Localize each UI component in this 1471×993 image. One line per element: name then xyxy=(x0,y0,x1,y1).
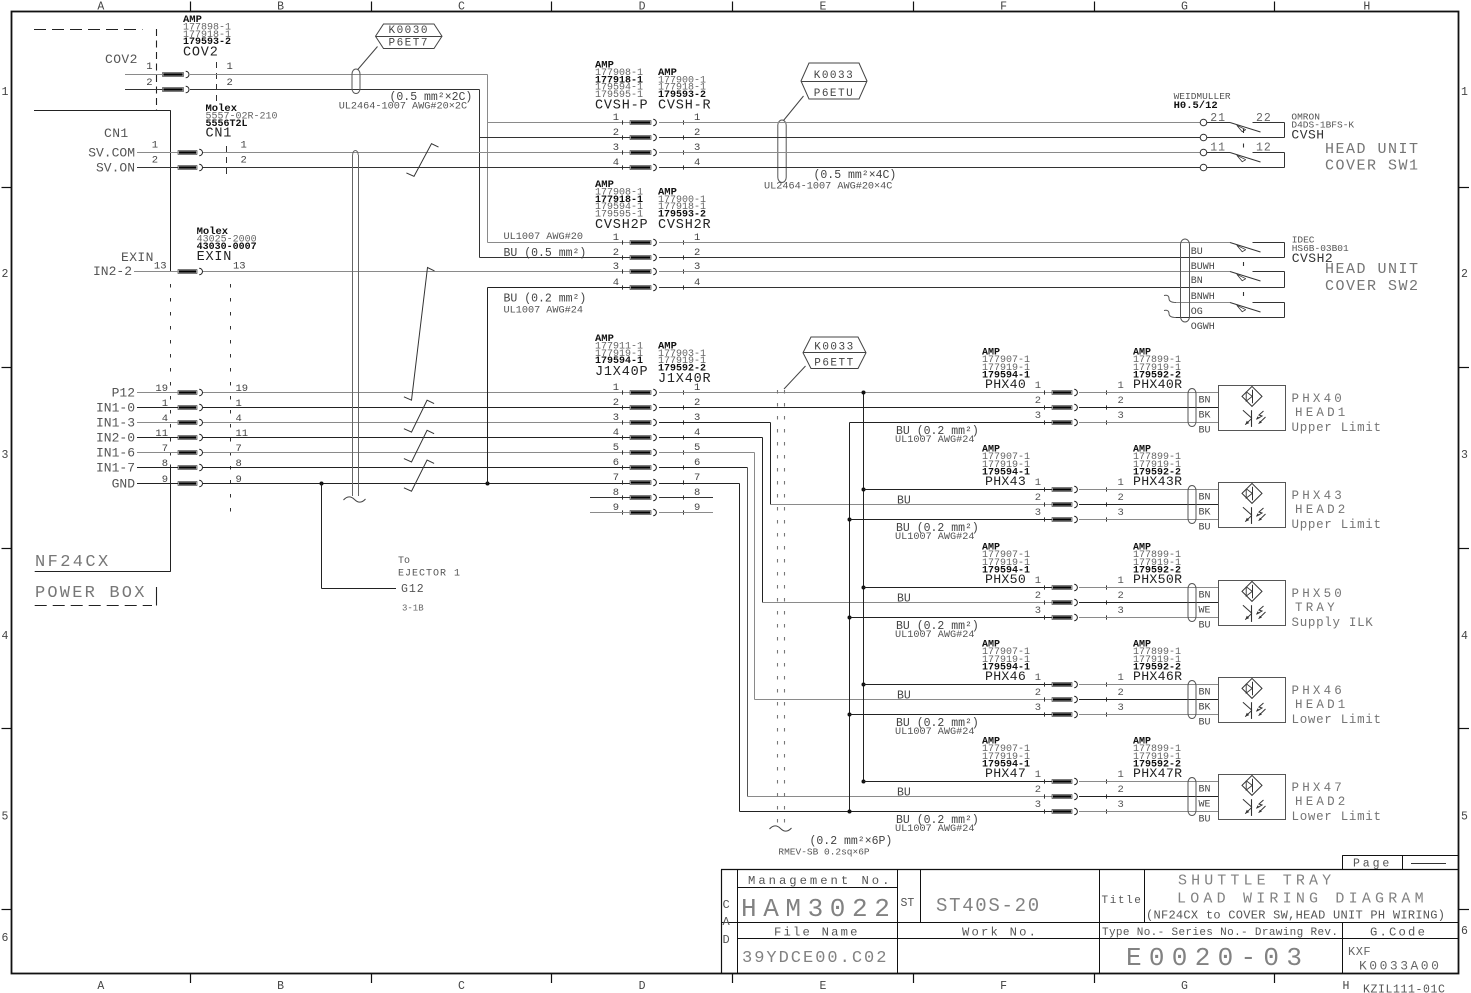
svg-text:CVSH-P: CVSH-P xyxy=(595,99,648,114)
svg-text:SHUTTLE TRAY: SHUTTLE TRAY xyxy=(1178,873,1335,890)
CVSH2 housing ticks xyxy=(622,240,624,244)
SW2 mechanical link dashes xyxy=(1243,262,1245,266)
PHX50 contacts xyxy=(1052,586,1072,590)
wire crossing slash rows 2-3 xyxy=(404,400,434,432)
CN1 pin 1 contact xyxy=(178,151,197,155)
svg-text:1: 1 xyxy=(2,86,9,99)
CVSH2 contacts xyxy=(630,241,651,245)
svg-text:BU: BU xyxy=(897,787,911,800)
svg-text:HEAD UNIT: HEAD UNIT xyxy=(1325,141,1420,158)
svg-text:2: 2 xyxy=(1035,590,1041,602)
svg-text:BU: BU xyxy=(897,690,911,703)
power box lead-in wires xyxy=(137,392,178,394)
sensor PHX47 LED diamond symbol xyxy=(1242,775,1262,795)
title block outline xyxy=(721,870,723,974)
svg-text:2: 2 xyxy=(1118,784,1124,796)
EXIN housing dashed columns xyxy=(170,284,172,461)
wire J1X40R pin1 to PHX40 pin1 (BN bus) xyxy=(659,392,1052,394)
svg-text:UL1007 AWG#24: UL1007 AWG#24 xyxy=(895,630,974,641)
BN bus junction dots xyxy=(862,391,866,395)
svg-text:PHX46R: PHX46R xyxy=(1133,669,1182,684)
svg-text:Title: Title xyxy=(1102,895,1143,907)
svg-text:2: 2 xyxy=(1035,687,1041,699)
svg-text:H: H xyxy=(1343,980,1350,993)
PHX50 cable marker oval xyxy=(1188,584,1196,622)
wire PHX43 pin1 from BN bus xyxy=(864,489,1053,491)
svg-text:BN: BN xyxy=(1191,276,1203,287)
svg-text:A: A xyxy=(723,915,731,929)
svg-text:Work No.: Work No. xyxy=(962,926,1038,940)
svg-text:3: 3 xyxy=(613,261,619,273)
svg-text:BNWH: BNWH xyxy=(1191,292,1215,303)
wire crossing slash rows 4-5 xyxy=(404,430,434,462)
svg-text:G: G xyxy=(1181,1,1188,14)
svg-text:BK: BK xyxy=(1199,411,1211,422)
sensor PHX43 phototransistor symbol xyxy=(1251,507,1253,524)
svg-text:UL1007 AWG#20: UL1007 AWG#20 xyxy=(504,232,583,243)
cable marker oval COV2 pair xyxy=(352,69,360,94)
svg-text:EJECTOR 1: EJECTOR 1 xyxy=(398,569,461,580)
CN1 box right edge upper xyxy=(170,110,172,271)
svg-text:A: A xyxy=(97,980,104,993)
svg-text:K0033: K0033 xyxy=(814,342,855,354)
svg-text:4: 4 xyxy=(613,427,619,439)
svg-text:1: 1 xyxy=(1461,86,1468,99)
svg-text:6: 6 xyxy=(2,932,9,945)
power box right edge lower xyxy=(170,465,172,572)
svg-text:K0033A00: K0033A00 xyxy=(1359,959,1441,974)
svg-text:UL2464-1007 AWG#20×4C: UL2464-1007 AWG#20×4C xyxy=(764,182,892,193)
svg-text:1: 1 xyxy=(241,140,247,152)
PHX43 cable marker oval xyxy=(1188,486,1196,524)
PHX40 contacts xyxy=(1052,391,1072,395)
svg-text:5: 5 xyxy=(2,811,9,824)
power box dashed corner tick xyxy=(156,587,158,606)
svg-text:3: 3 xyxy=(2,449,9,462)
wires CVSH-R to SW1 terminals xyxy=(659,122,1200,124)
wire CVSH2P pin4 feed xyxy=(488,287,631,289)
svg-text:1: 1 xyxy=(1118,672,1124,684)
PHX46 housing ticks xyxy=(1044,682,1046,686)
svg-text:Type No.- Series No.- Drawing: Type No.- Series No.- Drawing Rev. xyxy=(1102,927,1338,939)
CN1 lead-in wires xyxy=(137,152,178,154)
wire IN2-2 to CVSH2P pin3 xyxy=(203,271,630,273)
svg-text:J1X40P: J1X40P xyxy=(595,365,648,380)
svg-text:F: F xyxy=(1000,1,1007,14)
svg-text:1: 1 xyxy=(613,112,619,124)
svg-text:7: 7 xyxy=(613,472,619,484)
PHX46 contacts xyxy=(1052,683,1072,687)
svg-text:4: 4 xyxy=(613,277,619,289)
svg-text:7: 7 xyxy=(162,443,168,455)
wire J1X40R pin5 descent to PHX46 pin2 xyxy=(659,452,755,454)
svg-text:4: 4 xyxy=(613,157,619,169)
SW2 pole BN-BNWH xyxy=(1230,271,1232,273)
svg-text:IN1-0: IN1-0 xyxy=(96,401,135,416)
svg-text:6: 6 xyxy=(1461,925,1468,938)
svg-text:19: 19 xyxy=(155,383,168,395)
wire SW1 row1 feed from COV2-1 xyxy=(488,122,631,124)
svg-text:PHX47: PHX47 xyxy=(1292,781,1346,795)
svg-text:E: E xyxy=(819,980,826,993)
svg-text:BU: BU xyxy=(1199,621,1211,632)
svg-text:UL2464-1007 AWG#20×2C: UL2464-1007 AWG#20×2C xyxy=(339,102,467,113)
svg-text:SV.ON: SV.ON xyxy=(96,161,135,176)
svg-text:CN1: CN1 xyxy=(104,126,129,141)
wire PHX50 pin3 from BU bus xyxy=(850,617,1053,619)
sensor PHX50 phototransistor symbol xyxy=(1251,605,1253,622)
svg-text:4: 4 xyxy=(2,630,9,643)
svg-text:PHX40: PHX40 xyxy=(985,377,1026,392)
SW2 pole OG-OGWH xyxy=(1230,302,1232,304)
svg-text:1: 1 xyxy=(1035,575,1041,587)
svg-text:Supply ILK: Supply ILK xyxy=(1292,616,1374,630)
PHX50 housing ticks xyxy=(1044,585,1046,589)
callout K0030/P6ET7 xyxy=(376,24,443,49)
wire PHX46 pin3 from BU bus xyxy=(850,714,1053,716)
svg-text:PHX40R: PHX40R xyxy=(1133,377,1182,392)
COV2 pin 1 lead-in wire xyxy=(125,74,163,76)
svg-text:PHX50: PHX50 xyxy=(985,572,1026,587)
svg-text:1: 1 xyxy=(227,61,233,73)
svg-text:9: 9 xyxy=(162,474,168,486)
wire PHX43 pin3 from BU bus xyxy=(850,519,1053,521)
svg-text:COVER SW1: COVER SW1 xyxy=(1325,158,1420,175)
svg-text:EXIN: EXIN xyxy=(197,250,233,265)
svg-text:HEAD2: HEAD2 xyxy=(1295,795,1349,809)
svg-text:HAM3022: HAM3022 xyxy=(741,894,896,924)
svg-text:3: 3 xyxy=(1035,507,1041,519)
svg-text:8: 8 xyxy=(236,458,242,470)
svg-text:EXIN: EXIN xyxy=(121,250,154,265)
SW1 pole 11-12 xyxy=(1207,152,1230,154)
svg-text:COV2: COV2 xyxy=(105,52,138,67)
svg-text:RMEV-SB 0.2sq×6P: RMEV-SB 0.2sq×6P xyxy=(778,847,870,858)
svg-text:CVSH2R: CVSH2R xyxy=(658,218,711,233)
PHX40 cable marker oval xyxy=(1188,389,1196,427)
PHX47 contacts xyxy=(1052,780,1072,784)
svg-text:SV.COM: SV.COM xyxy=(88,146,135,161)
svg-text:HEAD UNIT: HEAD UNIT xyxy=(1325,261,1420,278)
svg-text:PHX47R: PHX47R xyxy=(1133,766,1182,781)
COV2 pin 2 contact xyxy=(163,88,184,92)
svg-text:IN2-0: IN2-0 xyxy=(96,431,135,446)
callout K0033/P6ETU xyxy=(801,63,867,99)
svg-text:4: 4 xyxy=(236,413,242,425)
wire J1X40R pin6 descent to PHX47 pin2 xyxy=(659,467,748,469)
J1X40 contacts xyxy=(630,391,651,395)
svg-text:(NF24CX to COVER SW,HEAD UNIT: (NF24CX to COVER SW,HEAD UNIT PH WIRING) xyxy=(1146,909,1445,923)
cable marker oval CVSH2 6-wire xyxy=(1181,239,1190,322)
svg-text:2: 2 xyxy=(1118,395,1124,407)
cable break tilde bundle xyxy=(770,826,792,831)
sensor box PHX40 xyxy=(1219,386,1286,431)
svg-text:8: 8 xyxy=(162,458,168,470)
svg-text:5: 5 xyxy=(613,442,619,454)
sensor PHX47 phototransistor symbol xyxy=(1251,799,1253,816)
CVSH contacts xyxy=(630,121,651,125)
svg-text:7: 7 xyxy=(236,443,242,455)
svg-text:11: 11 xyxy=(155,428,168,440)
svg-text:2: 2 xyxy=(1035,492,1041,504)
svg-text:GND: GND xyxy=(112,477,136,492)
svg-text:1: 1 xyxy=(1118,769,1124,781)
EXIN pin 13 contact xyxy=(178,270,197,274)
svg-text:3: 3 xyxy=(1035,605,1041,617)
svg-text:2: 2 xyxy=(146,77,152,89)
svg-text:3: 3 xyxy=(1118,410,1124,422)
svg-text:1: 1 xyxy=(1118,380,1124,392)
cable bundle dashed pair (0.2mm2 x6P) xyxy=(777,390,779,824)
wire GND drop to ejector note xyxy=(321,484,323,589)
sensor PHX46 phototransistor symbol xyxy=(1251,702,1253,719)
J1X40R pin8 pin9 right stubs xyxy=(659,497,713,499)
sensor box PHX46 xyxy=(1219,678,1286,723)
frame row ticks left xyxy=(2,187,12,189)
SW1 mechanical link dashes xyxy=(1243,129,1245,133)
svg-text:C: C xyxy=(723,898,730,912)
svg-text:IN1-7: IN1-7 xyxy=(96,461,135,476)
PHX43 wires to sensor xyxy=(1079,489,1218,491)
svg-text:UL1007 AWG#24: UL1007 AWG#24 xyxy=(895,532,974,543)
svg-text:P6ET7: P6ET7 xyxy=(388,37,429,49)
sensor PHX40 phototransistor symbol xyxy=(1251,410,1253,427)
svg-text:TRAY: TRAY xyxy=(1295,601,1338,615)
svg-text:3: 3 xyxy=(1118,605,1124,617)
J1X40 housing ticks xyxy=(622,390,624,394)
svg-text:2: 2 xyxy=(613,247,619,259)
svg-text:2: 2 xyxy=(1035,784,1041,796)
svg-text:2: 2 xyxy=(1118,687,1124,699)
svg-text:UL1007 AWG#24: UL1007 AWG#24 xyxy=(895,435,974,446)
wires CVSH2R to SW2 xyxy=(659,242,1230,244)
svg-text:K0030: K0030 xyxy=(388,25,429,37)
svg-text:7: 7 xyxy=(694,472,700,484)
svg-text:E: E xyxy=(819,1,826,14)
PHX46 wires to sensor xyxy=(1079,684,1218,686)
svg-text:COV2: COV2 xyxy=(183,46,219,61)
svg-text:G12: G12 xyxy=(401,583,425,596)
svg-text:CVSH-R: CVSH-R xyxy=(658,99,711,114)
svg-text:CVSH: CVSH xyxy=(1291,128,1324,143)
svg-text:ST40S-20: ST40S-20 xyxy=(936,895,1041,917)
CN1 box top edge xyxy=(34,110,171,112)
svg-text:11: 11 xyxy=(236,428,249,440)
svg-text:HEAD1: HEAD1 xyxy=(1295,698,1349,712)
wire CVSH2P pin4 riser xyxy=(487,288,489,484)
svg-text:2: 2 xyxy=(152,155,158,167)
PHX47 housing ticks xyxy=(1044,779,1046,783)
wire SV.COM to CVSH-P pin3 xyxy=(203,152,630,154)
callout K0033/P6ETT xyxy=(803,337,866,369)
cable break tilde CN1 xyxy=(344,497,366,502)
svg-text:1: 1 xyxy=(1118,477,1124,489)
svg-text:BU: BU xyxy=(897,593,911,606)
svg-text:OG: OG xyxy=(1191,307,1203,318)
svg-text:1: 1 xyxy=(613,382,619,394)
svg-text:H: H xyxy=(1363,1,1370,14)
svg-text:ST: ST xyxy=(901,897,915,910)
svg-text:3: 3 xyxy=(1118,702,1124,714)
wire J1X40R pin4 descent to PHX50 pin2 xyxy=(659,437,763,439)
wires P12..GND to J1X40P xyxy=(203,392,630,394)
svg-text:D: D xyxy=(639,1,646,14)
svg-text:HEAD2: HEAD2 xyxy=(1295,503,1349,517)
wire COV2-2 vertical drop x479 xyxy=(479,90,481,258)
svg-text:21: 21 xyxy=(1210,112,1226,125)
svg-text:OGWH: OGWH xyxy=(1191,322,1215,333)
frame column ticks bottom xyxy=(190,974,192,983)
svg-text:2: 2 xyxy=(1035,395,1041,407)
wire PHX47 pin1 from BN bus xyxy=(864,781,1053,783)
svg-text:13: 13 xyxy=(154,261,167,273)
svg-text:BN: BN xyxy=(1199,396,1211,407)
sensor PHX43 LED diamond symbol xyxy=(1242,483,1262,503)
svg-text:4: 4 xyxy=(162,413,168,425)
svg-text:E0020-03: E0020-03 xyxy=(1126,943,1309,973)
PHX43 housing ticks xyxy=(1044,487,1046,491)
BU bus vertical x849 xyxy=(849,423,851,812)
power box pin contacts xyxy=(178,391,197,395)
svg-text:P12: P12 xyxy=(112,386,135,401)
svg-text:4: 4 xyxy=(1461,630,1468,643)
svg-text:1: 1 xyxy=(1035,672,1041,684)
svg-text:PHX47: PHX47 xyxy=(985,766,1026,781)
svg-text:D: D xyxy=(639,980,646,993)
cable marker oval CVSH 4-wire xyxy=(778,120,786,183)
svg-text:P6ETT: P6ETT xyxy=(814,357,855,369)
svg-text:BU: BU xyxy=(1199,523,1211,534)
svg-text:P6ETU: P6ETU xyxy=(814,88,855,100)
svg-text:3: 3 xyxy=(1461,449,1468,462)
svg-text:22: 22 xyxy=(1256,112,1272,125)
svg-text:CN1: CN1 xyxy=(206,127,233,142)
BN bus vertical x864 xyxy=(863,393,865,782)
svg-text:BU (0.2 mm²): BU (0.2 mm²) xyxy=(504,293,587,306)
COV2 pin 1 contact xyxy=(163,73,184,77)
svg-text:CVSH2P: CVSH2P xyxy=(595,218,648,233)
svg-text:BUWH: BUWH xyxy=(1191,262,1215,273)
svg-text:3-1B: 3-1B xyxy=(402,604,424,614)
svg-text:WE: WE xyxy=(1199,606,1211,617)
svg-text:B: B xyxy=(277,980,284,993)
sensor PHX50 LED diamond symbol xyxy=(1242,581,1262,601)
svg-text:2: 2 xyxy=(613,127,619,139)
svg-text:PHX40: PHX40 xyxy=(1292,392,1346,406)
svg-text:2: 2 xyxy=(1118,590,1124,602)
svg-text:PHX50: PHX50 xyxy=(1292,587,1346,601)
svg-text:H0.5/12: H0.5/12 xyxy=(1174,100,1218,112)
svg-text:K0033: K0033 xyxy=(814,70,855,82)
NF24CX power box dashed outline top xyxy=(34,29,143,31)
svg-text:2: 2 xyxy=(2,268,9,281)
svg-text:WE: WE xyxy=(1199,800,1211,811)
sensor box PHX50 xyxy=(1219,581,1286,626)
svg-text:UL1007 AWG#24: UL1007 AWG#24 xyxy=(895,727,974,738)
wire SV.ON to CVSH-P pin4 xyxy=(203,167,630,169)
svg-text:G: G xyxy=(1181,980,1188,993)
svg-text:NF24CX: NF24CX xyxy=(35,553,111,572)
svg-text:BU: BU xyxy=(1199,815,1211,826)
svg-text:3: 3 xyxy=(1118,799,1124,811)
svg-text:BU: BU xyxy=(1199,426,1211,437)
BU bus junction dots xyxy=(848,518,852,522)
SW1 pole 21-22 xyxy=(1207,122,1230,124)
svg-text:9: 9 xyxy=(236,474,242,486)
svg-text:To: To xyxy=(398,556,410,567)
svg-text:1: 1 xyxy=(236,398,242,410)
svg-text:KXF: KXF xyxy=(1348,945,1371,959)
svg-text:2: 2 xyxy=(1118,492,1124,504)
svg-text:File Name: File Name xyxy=(774,926,860,940)
svg-text:PHX50R: PHX50R xyxy=(1133,572,1182,587)
svg-text:LOAD WIRING DIAGRAM: LOAD WIRING DIAGRAM xyxy=(1177,891,1428,908)
sensor PHX46 LED diamond symbol xyxy=(1242,678,1262,698)
svg-text:Lower Limit: Lower Limit xyxy=(1292,810,1382,824)
wire J1X40R pin7 (GND) descent to PHX47 pin3 xyxy=(659,483,740,485)
svg-text:Page: Page xyxy=(1353,858,1392,871)
wire J1X40R pin3 descent to PHX43 pin2 xyxy=(659,422,771,424)
svg-text:C: C xyxy=(458,1,465,14)
svg-text:1: 1 xyxy=(613,232,619,244)
wire OGWH with curled end xyxy=(1164,310,1176,317)
svg-text:3: 3 xyxy=(1035,410,1041,422)
PHX40 housing ticks xyxy=(1044,390,1046,394)
svg-text:KZIL111-01C: KZIL111-01C xyxy=(1363,984,1446,993)
wire OG with curled end xyxy=(1164,295,1176,302)
svg-text:Lower Limit: Lower Limit xyxy=(1292,713,1382,727)
svg-text:1: 1 xyxy=(162,398,168,410)
svg-text:BN: BN xyxy=(1199,591,1211,602)
COV2 pin 2 lead-in wire xyxy=(125,89,163,91)
CN1 housing ticks xyxy=(226,146,228,175)
svg-text:2: 2 xyxy=(227,77,233,89)
POWER BOX dashed underline xyxy=(35,605,152,607)
svg-text:Upper Limit: Upper Limit xyxy=(1292,518,1382,532)
wire J1X40R pin2 to PHX40 pin2 xyxy=(659,407,1052,409)
PHX50 wires to sensor xyxy=(1079,587,1218,589)
svg-text:C: C xyxy=(458,980,465,993)
svg-text:PHX43: PHX43 xyxy=(1292,489,1346,503)
J1X40P pin8 pin9 left stubs xyxy=(590,497,630,499)
page box xyxy=(1343,855,1459,857)
SW2 pole BU-BUWH xyxy=(1230,242,1232,244)
svg-text:B: B xyxy=(277,1,284,14)
CN1 pin 2 contact xyxy=(178,166,197,170)
frame row ticks right xyxy=(1459,187,1469,189)
svg-text:1: 1 xyxy=(1118,575,1124,587)
svg-text:PHX43R: PHX43R xyxy=(1133,474,1182,489)
svg-text:BU: BU xyxy=(1191,247,1203,258)
svg-text:3: 3 xyxy=(1035,799,1041,811)
wire COV2-1 to step-down xyxy=(190,74,488,76)
CVSH housing ticks xyxy=(622,120,624,124)
junction GND to CVSH2P pin4 xyxy=(486,482,490,486)
svg-text:BU: BU xyxy=(1199,718,1211,729)
PHX47 wires to sensor xyxy=(1079,781,1218,783)
power box dashed right edge (COV2 section) xyxy=(156,29,158,110)
PHX47 cable marker oval xyxy=(1188,778,1196,816)
svg-text:3: 3 xyxy=(613,412,619,424)
PHX40 wires to sensor xyxy=(1079,392,1218,394)
sensor PHX40 LED diamond symbol xyxy=(1242,386,1262,406)
svg-text:J1X40R: J1X40R xyxy=(658,372,711,387)
svg-text:3: 3 xyxy=(1035,702,1041,714)
svg-text:UL1007 AWG#24: UL1007 AWG#24 xyxy=(504,306,583,317)
svg-text:Management No.: Management No. xyxy=(748,874,892,888)
svg-text:BN: BN xyxy=(1199,493,1211,504)
svg-text:19: 19 xyxy=(236,383,249,395)
